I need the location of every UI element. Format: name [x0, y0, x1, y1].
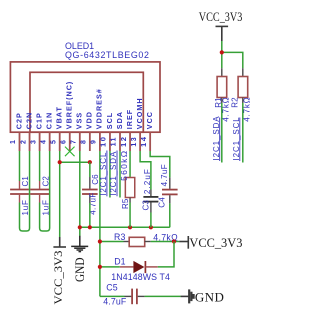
junction pin8 [88, 160, 92, 164]
wire C2 bottom loop to pin4 [40, 151, 50, 231]
power symbol VCC_3V3 top right [216, 26, 229, 41]
junction pin9 R3 [98, 239, 102, 243]
ground symbol GND at C5 rotated [181, 289, 194, 303]
diode D1 [120, 261, 158, 273]
wire R3 to VCC_3V3 [151, 241, 180, 243]
capacitor C6 [82, 177, 98, 203]
resistor R1 [217, 68, 227, 103]
svg-text:QG-6432TLBEG02: QG-6432TLBEG02 [65, 50, 150, 60]
wire C6 bottom to rail [89, 203, 91, 227]
svg-text:VCC_3V3: VCC_3V3 [199, 9, 243, 24]
svg-text:8: 8 [81, 139, 88, 144]
svg-text:4.7kΩ: 4.7kΩ [221, 97, 230, 122]
svg-text:VSS: VSS [75, 112, 84, 129]
power symbol VCC_3V3 at R3 [179, 236, 188, 249]
svg-text:C2N: C2N [24, 112, 33, 129]
svg-text:SDA: SDA [115, 111, 124, 129]
wire from power down to R1 [221, 41, 223, 68]
net label I2C1_SCL at pin10 [99, 151, 108, 197]
svg-text:GND: GND [73, 258, 87, 283]
svg-text:4: 4 [40, 139, 47, 144]
svg-text:4.7uF: 4.7uF [103, 297, 127, 307]
OLED1 component outline outer box [10, 62, 160, 132]
no-connect X on pin 6 [65, 147, 75, 157]
svg-text:C4: C4 [158, 197, 167, 208]
wire C5 row from pin9 line [100, 295, 125, 297]
svg-text:VDD: VDD [85, 111, 94, 129]
svg-text:4.7kΩ: 4.7kΩ [243, 97, 252, 122]
svg-text:1: 1 [10, 139, 17, 144]
svg-text:VBREF(NC): VBREF(NC) [65, 81, 74, 130]
svg-text:6: 6 [60, 139, 67, 144]
power symbol VCC_3V3 at VBAT [53, 237, 66, 247]
wire pin11 SDA stub [119, 151, 121, 198]
svg-text:1N4148WS T4: 1N4148WS T4 [111, 272, 170, 282]
junction rail C3 [149, 225, 153, 229]
junction rail pin7 [78, 225, 82, 229]
svg-text:10: 10 [101, 136, 108, 148]
wire VBAT to VDD horizontal [60, 161, 90, 163]
wire pin13 VCOMH jog to C3 [140, 151, 151, 190]
net label I2C1_SDA at R1 [212, 116, 221, 162]
junction R3 D1 riser [172, 239, 176, 243]
junction rail C6 [88, 225, 92, 229]
wire R1 down [221, 103, 223, 163]
ground rail wire [80, 226, 170, 228]
ground symbol GND at VSS [71, 236, 88, 252]
svg-text:4.7uF: 4.7uF [160, 164, 169, 186]
svg-text:C3: C3 [142, 200, 151, 211]
wire pin1 to C1 [19, 151, 21, 181]
svg-text:R5: R5 [121, 198, 130, 209]
wire R3 row from pin9 line [100, 241, 124, 243]
svg-text:R2: R2 [230, 97, 239, 108]
svg-text:C5: C5 [106, 283, 117, 293]
wire C1 bottom loop to pin2 [20, 151, 30, 231]
capacitor C3 [143, 190, 158, 213]
svg-text:2.2uF: 2.2uF [143, 168, 152, 194]
svg-text:2: 2 [20, 139, 27, 144]
net label I2C1_SCL at R2 [232, 116, 241, 161]
svg-text:14: 14 [141, 136, 148, 148]
net label I2C1_SDA at pin11 [109, 151, 118, 197]
junction pin5 [58, 160, 62, 164]
wire C5 to GND [145, 295, 181, 297]
svg-text:VBAT: VBAT [55, 106, 64, 129]
capacitor C2 [30, 181, 49, 203]
wire pin5 VBAT down to power symbol [59, 151, 61, 237]
OLED1 pin stubs 1-14 [20, 132, 151, 151]
svg-text:3: 3 [30, 139, 37, 144]
svg-text:C1P: C1P [34, 112, 43, 129]
resistor R2 [238, 68, 248, 103]
svg-text:VCC_3V3: VCC_3V3 [189, 235, 242, 250]
svg-text:7: 7 [71, 139, 78, 144]
capacitor C1 [10, 181, 29, 203]
svg-text:VCC: VCC [145, 111, 154, 129]
junction rail R5 [128, 225, 132, 229]
wire branch to R2 [222, 52, 243, 68]
wire D1 row from pin9 line [100, 266, 120, 268]
svg-text:560kΩ: 560kΩ [119, 150, 129, 181]
wire C4 bottom corner to rail [169, 203, 171, 227]
svg-text:C2P: C2P [14, 112, 23, 129]
svg-text:D1: D1 [114, 257, 125, 267]
svg-text:SCL: SCL [105, 112, 114, 129]
wire C3 bottom to rail [150, 213, 152, 228]
junction top right [220, 50, 224, 54]
svg-text:9: 9 [91, 139, 98, 144]
wire pin3 to C2 [39, 151, 41, 181]
junction pin9 D1 [98, 265, 102, 269]
svg-text:12: 12 [121, 136, 128, 148]
svg-text:11: 11 [111, 136, 118, 146]
wire R5 bottom to rail [129, 203, 131, 228]
wire pin9 VDDRES# reset net down [99, 151, 101, 296]
svg-text:VDDRES#: VDDRES# [95, 88, 104, 129]
wire pin14 VCC jog to C4 [150, 151, 170, 177]
wire pin12 IREF to R5 [129, 151, 131, 178]
capacitor C4 [162, 177, 178, 203]
wire D1 cathode up to R3 row [158, 242, 174, 267]
svg-text:VCOMH: VCOMH [135, 97, 144, 129]
resistor R3 [124, 237, 151, 246]
OLED1 pin numbers 1-14 [10, 136, 148, 148]
svg-text:IREF: IREF [125, 109, 134, 129]
capacitor C5 [125, 289, 145, 305]
wire R2 down [242, 103, 244, 163]
wire pin10 SCL stub [109, 151, 111, 198]
svg-text:R3: R3 [114, 232, 125, 242]
svg-text:GND: GND [195, 290, 224, 305]
svg-text:5: 5 [50, 139, 57, 144]
OLED1 pin names [14, 81, 154, 130]
svg-text:13: 13 [131, 136, 138, 147]
svg-text:VCC_3V3: VCC_3V3 [51, 251, 65, 305]
wire pin7 VSS down to ground [79, 151, 81, 236]
OLED1 component inner box [30, 72, 143, 132]
resistor R5 [125, 178, 134, 203]
svg-text:C1N: C1N [44, 112, 53, 129]
wire pin8 VDD down to C6 [89, 162, 91, 177]
